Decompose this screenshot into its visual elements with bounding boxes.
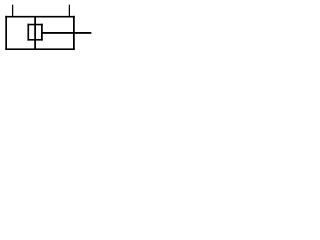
fuse element conductor (vertical line through body): [34, 17, 36, 50]
fuse body bottom edge: [27, 39, 42, 41]
fuse body top edge: [27, 24, 42, 26]
wire (right tap): [41, 32, 91, 34]
enclosure box bottom edge: [5, 48, 74, 50]
fuse body right edge: [41, 24, 43, 41]
enclosure box top edge: [5, 16, 74, 18]
wire (top-right lead): [69, 5, 70, 18]
enclosure box right edge: [73, 16, 75, 50]
enclosure box left edge: [5, 16, 7, 50]
fuse body left edge: [27, 24, 29, 41]
wire (top-left lead): [12, 5, 13, 18]
